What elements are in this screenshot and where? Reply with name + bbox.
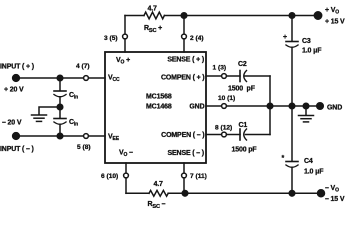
capacitor Cin upper — [59, 78, 61, 91]
svg-text:MC1468: MC1468 — [146, 104, 172, 111]
op-amp U1 MC1568/MC1468 regulator box — [105, 52, 206, 163]
svg-text:4.7: 4.7 — [154, 181, 164, 188]
resistor RSC+ — [144, 12, 164, 19]
svg-text:8 (12): 8 (12) — [215, 125, 232, 132]
pin 2 (4) circle — [182, 34, 187, 39]
svg-text:1 (3): 1 (3) — [213, 65, 227, 72]
wire input plus rail — [18, 77, 84, 79]
wire vertical to pin 2 — [183, 16, 185, 35]
svg-text:Cin: Cin — [69, 119, 78, 128]
node junction top above pin 2 — [181, 13, 187, 19]
svg-text:3 (5): 3 (5) — [104, 35, 118, 42]
svg-text:+ 20 V: + 20 V — [4, 87, 24, 94]
svg-text:C3: C3 — [302, 38, 311, 45]
capacitor C4 — [291, 106, 293, 161]
svg-text:+: + — [283, 34, 287, 41]
terminal INPUT(+) — [13, 75, 20, 82]
pin 3 (5) circle — [123, 34, 128, 39]
node junction bottom at pin 7 — [182, 191, 188, 197]
wire pin 4 stub to box — [89, 77, 106, 79]
svg-text:5 (8): 5 (8) — [77, 144, 91, 151]
ground symbol input — [32, 114, 47, 116]
svg-text:+ VO: + VO — [325, 7, 339, 16]
wire pin 7 stub — [183, 163, 185, 174]
svg-text:RSC –: RSC – — [148, 201, 166, 208]
svg-text:COMPEN ( + ): COMPEN ( + ) — [161, 75, 205, 82]
node junction top rail at C3 — [289, 13, 295, 19]
capacitor C1 — [239, 129, 241, 140]
wire C1 to node — [246, 134, 271, 136]
wire pin 10 stub — [206, 105, 222, 107]
svg-text:– 15 V: – 15 V — [325, 196, 345, 203]
wire pin 1 stub — [206, 75, 222, 77]
svg-text:Cin: Cin — [69, 92, 78, 101]
pin 1 (3) circle — [222, 74, 227, 79]
wire pin 8 to C1 — [227, 134, 241, 136]
svg-text:2 (4): 2 (4) — [190, 35, 204, 42]
svg-text:MC1568: MC1568 — [146, 94, 172, 101]
node junction Cin bottom — [57, 133, 63, 139]
resistor RSC- — [149, 190, 168, 196]
terminal INPUT(-) — [13, 133, 20, 140]
wire bottom rail left — [126, 192, 149, 194]
wire pin 7 to bottom rail — [183, 178, 185, 193]
wire vertical to pin 3 — [124, 16, 126, 35]
wire top rail left segment — [125, 15, 144, 17]
node junction ground mid — [57, 104, 63, 110]
svg-text:1500 pF: 1500 pF — [228, 86, 256, 93]
wire C2 to node — [245, 75, 270, 77]
svg-text:– VO: – VO — [325, 185, 339, 194]
svg-text:VEE: VEE — [108, 134, 120, 143]
pin 5 (8) circle — [84, 134, 89, 139]
svg-text:GND: GND — [327, 105, 342, 112]
svg-text:+ 15 V: + 15 V — [325, 19, 345, 26]
ground symbol output — [303, 103, 309, 109]
svg-text:7 (11): 7 (11) — [190, 173, 207, 180]
capacitor C2 — [239, 71, 241, 82]
wire top rail right segment — [164, 15, 318, 17]
node junction bottom at C4 — [289, 191, 295, 197]
svg-text:1.0 μF: 1.0 μF — [302, 48, 322, 55]
svg-text:10 (1): 10 (1) — [218, 95, 235, 102]
wire pin 3 stub to box — [124, 39, 126, 52]
svg-text:C4: C4 — [304, 158, 313, 165]
wire to input ground — [39, 107, 60, 115]
svg-text:COMPEN ( – ): COMPEN ( – ) — [161, 132, 204, 139]
pin 4 (7) circle — [84, 76, 89, 81]
svg-text:– 20 V: – 20 V — [2, 120, 22, 127]
svg-text:1.0 μF: 1.0 μF — [304, 169, 324, 176]
capacitor Cin lower — [59, 107, 61, 118]
wire pin 5 stub to box — [89, 135, 106, 137]
wire pin 6 to bottom rail — [125, 178, 127, 193]
pin 8 (12) circle — [222, 132, 227, 137]
svg-text:VO –: VO – — [119, 150, 133, 159]
node junction Cin top — [57, 75, 63, 81]
terminal +VO — [314, 12, 321, 19]
svg-text:VCC: VCC — [108, 75, 120, 84]
wire GND rail — [227, 105, 321, 107]
svg-text:1500 pF: 1500 pF — [232, 147, 258, 154]
svg-text:SENSE ( – ): SENSE ( – ) — [168, 150, 204, 157]
svg-text:6 (10): 6 (10) — [101, 173, 118, 180]
terminal -VO — [318, 190, 325, 197]
terminal GND — [317, 103, 324, 110]
svg-text:SENSE ( + ): SENSE ( + ) — [167, 57, 204, 64]
wire pin 6 stub — [125, 163, 127, 174]
svg-text:INPUT ( – ): INPUT ( – ) — [0, 146, 34, 153]
svg-text:4 (7): 4 (7) — [76, 63, 90, 70]
svg-text:4.7: 4.7 — [148, 6, 158, 13]
svg-text:GND: GND — [189, 104, 204, 111]
svg-text:INPUT ( + ): INPUT ( + ) — [0, 64, 34, 71]
capacitor C3 — [291, 16, 293, 42]
node junction GND/C3C4 — [289, 103, 295, 109]
pin 6 (10) circle — [124, 173, 129, 178]
wire compensation vertical — [269, 76, 271, 135]
svg-text:*: * — [282, 155, 285, 162]
wire bottom rail right — [168, 192, 321, 194]
wire pin 2 stub to box — [183, 39, 185, 52]
svg-text:RSC +: RSC + — [144, 25, 162, 34]
node junction GND/compen — [267, 103, 273, 109]
wire pin 1 to C2 — [227, 75, 241, 77]
svg-text:C2: C2 — [238, 61, 247, 68]
svg-text:VO +: VO + — [116, 57, 130, 66]
wire pin 8 stub — [206, 134, 222, 136]
svg-text:C1: C1 — [239, 122, 248, 129]
pin 7 (11) circle — [182, 173, 187, 178]
wire input minus rail — [18, 135, 84, 137]
pin 10 (1) circle — [222, 104, 227, 109]
